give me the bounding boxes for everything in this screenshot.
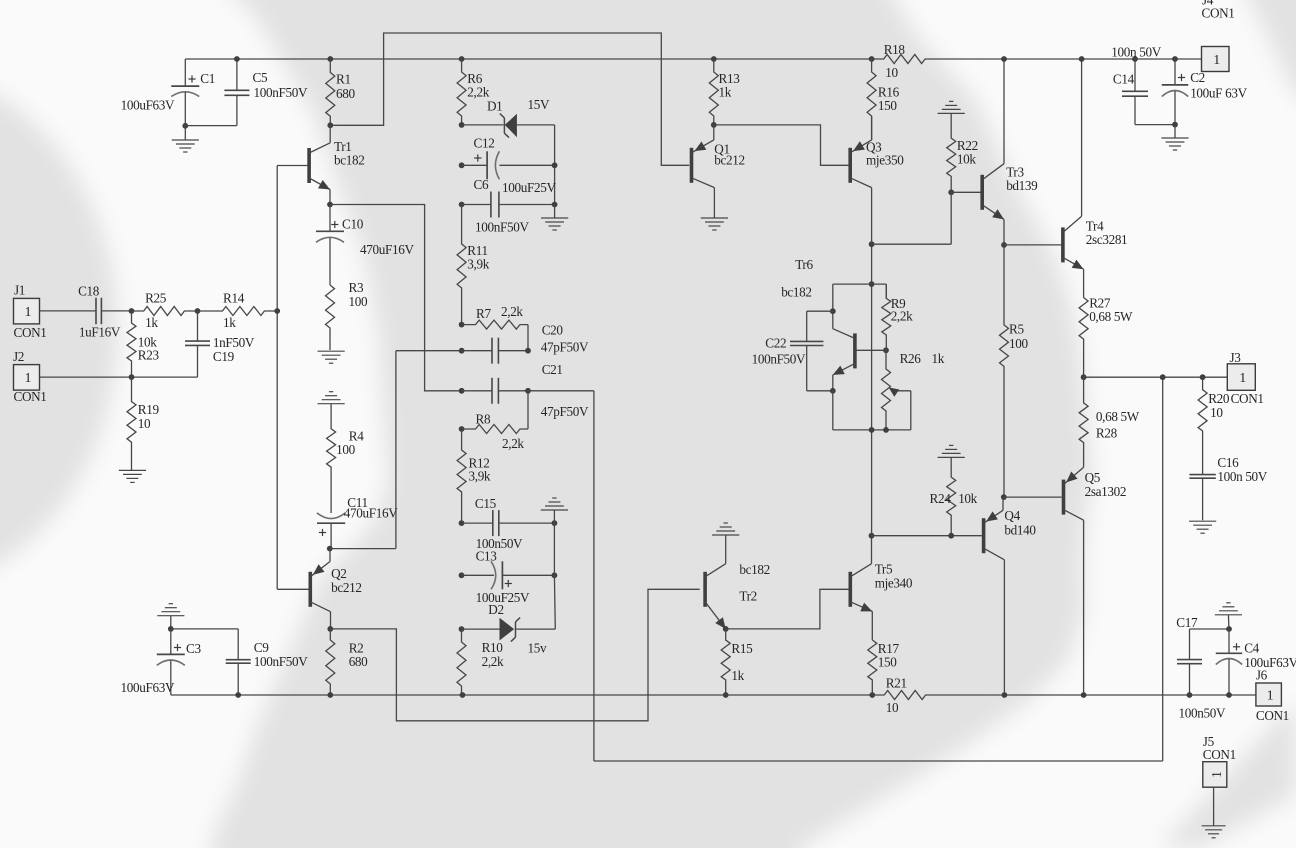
wire C11 node to C20 column: [330, 548, 396, 550]
node R25/R14: [195, 308, 201, 314]
capacitor C19: [185, 340, 210, 342]
capacitor C4 electrolytic: [1227, 615, 1230, 629]
transistor Tr4 2sc3281: [1061, 227, 1065, 262]
svg-text:CON1: CON1: [1256, 708, 1289, 723]
resistor R21: [872, 691, 1004, 700]
svg-text:R21: R21: [886, 676, 907, 691]
node Tr3 base: [948, 189, 954, 195]
transistor Tr3 bd139: [980, 175, 984, 210]
wire Q2 collector to Tr2 base: [330, 589, 699, 721]
node Tr4 collector rail: [1079, 56, 1085, 62]
capacitor C16: [1189, 474, 1215, 476]
svg-text:J1: J1: [14, 283, 25, 298]
svg-text:150: 150: [878, 654, 897, 669]
wire right column C15-C13-D2: [553, 523, 555, 575]
node R15 bottom: [723, 692, 729, 698]
svg-text:680: 680: [349, 654, 368, 669]
svg-text:C18: C18: [78, 284, 100, 299]
wire C21 right to feedback column: [528, 390, 594, 392]
wire Tr6 column down: [871, 244, 873, 536]
svg-text:C9: C9: [254, 640, 269, 655]
svg-text:1: 1: [1239, 371, 1246, 386]
transistor Tr5 mje340: [849, 572, 853, 607]
svg-text:100uF25V: 100uF25V: [502, 180, 556, 195]
svg-text:R14: R14: [223, 291, 245, 306]
resistor R20: [1200, 374, 1206, 380]
svg-text:100n 50V: 100n 50V: [1217, 469, 1267, 484]
wire bias node to Q4 base: [872, 535, 982, 537]
svg-text:C6: C6: [474, 177, 489, 192]
svg-text:0,68 5W: 0,68 5W: [1089, 309, 1133, 324]
capacitor C18: [40, 310, 97, 312]
svg-text:2,2k: 2,2k: [482, 654, 504, 669]
svg-text:2,2k: 2,2k: [502, 436, 524, 451]
inverted ground above Tr2: [712, 534, 739, 536]
wire Q2 base: [277, 588, 309, 590]
svg-text:10: 10: [886, 700, 899, 715]
resistor R1: [327, 56, 333, 62]
svg-text:C12: C12: [474, 136, 495, 151]
svg-text:1: 1: [25, 371, 32, 386]
svg-text:470uF16V: 470uF16V: [360, 242, 414, 257]
transistor Q4 bd140: [982, 518, 986, 553]
svg-text:1nF50V: 1nF50V: [213, 335, 255, 350]
svg-text:C2: C2: [1190, 70, 1205, 85]
svg-text:R8: R8: [476, 412, 491, 427]
resistor R17: [871, 611, 873, 640]
svg-text:CON1: CON1: [1231, 391, 1264, 406]
svg-text:C13: C13: [476, 549, 498, 564]
node C9 bottom: [235, 692, 241, 698]
svg-text:1: 1: [1210, 771, 1225, 778]
capacitor C20: [459, 348, 465, 354]
svg-text:C21: C21: [542, 362, 563, 377]
wire feedback loop to Q1 base: [330, 33, 689, 165]
node Tr3 collector rail: [1001, 56, 1007, 62]
node Tr6 net bottom: [869, 427, 875, 433]
svg-text:470uF16V: 470uF16V: [344, 506, 398, 521]
node C2 bottom / ground: [1172, 122, 1178, 128]
svg-text:100n50V: 100n50V: [1179, 705, 1226, 720]
svg-text:R7: R7: [476, 306, 491, 321]
svg-text:R19: R19: [138, 402, 160, 417]
ground under Q1: [713, 188, 715, 218]
resistor R24: [947, 457, 956, 535]
zener diode D1: [462, 124, 504, 126]
resistor R11: [457, 205, 466, 325]
inverted ground above C3: [157, 615, 184, 617]
svg-text:R23: R23: [138, 348, 160, 363]
node R1 bottom: [327, 122, 333, 128]
transistor Q5 2sa1302: [1062, 480, 1066, 515]
svg-text:J2: J2: [13, 349, 24, 364]
node R24 bottom: [948, 533, 954, 539]
resistor R7: [459, 322, 465, 328]
node Tr6 base: [883, 347, 889, 353]
capacitor C22: [807, 310, 833, 312]
svg-text:100uF 63V: 100uF 63V: [1190, 85, 1247, 100]
transistor Tr1 bc182: [307, 148, 311, 183]
node R6 bottom: [459, 122, 465, 128]
inverted ground above C4: [1215, 614, 1242, 616]
node C11/Q2 emitter: [327, 546, 333, 552]
resistor R19: [127, 377, 136, 470]
svg-text:2,2k: 2,2k: [467, 85, 489, 100]
svg-text:R26: R26: [900, 351, 922, 366]
capacitor C13 electrolytic: [459, 572, 465, 578]
svg-text:CON1: CON1: [1202, 5, 1235, 20]
node Tr4 base: [1001, 242, 1007, 248]
svg-text:bd140: bd140: [1004, 523, 1036, 538]
svg-text:bc212: bc212: [714, 152, 744, 167]
svg-text:Tr2: Tr2: [739, 589, 757, 604]
node J2/R19: [129, 374, 135, 380]
svg-text:R10: R10: [482, 640, 504, 655]
node R14 right on base column: [274, 308, 280, 314]
svg-text:bc182: bc182: [739, 562, 769, 577]
resistor R13: [711, 56, 717, 62]
svg-text:bc212: bc212: [331, 580, 361, 595]
svg-text:680: 680: [336, 86, 355, 101]
node C22 top: [830, 308, 836, 314]
svg-text:100nF50V: 100nF50V: [752, 352, 806, 367]
svg-text:10: 10: [138, 416, 151, 431]
svg-text:100nF50V: 100nF50V: [475, 220, 529, 235]
node R10 bottom: [460, 692, 466, 698]
svg-text:C14: C14: [1113, 71, 1135, 86]
wire J2 to node: [40, 376, 132, 378]
capacitor C1: [184, 59, 186, 86]
resistor R27: [1083, 269, 1085, 297]
ground under J5: [1213, 787, 1215, 826]
svg-text:2,2k: 2,2k: [501, 304, 523, 319]
svg-text:100: 100: [1009, 336, 1028, 351]
capacitor C11 electrolytic: [317, 513, 345, 519]
inverted ground above R22: [938, 112, 965, 114]
svg-text:100nF50V: 100nF50V: [254, 85, 308, 100]
svg-text:1: 1: [25, 305, 32, 320]
wire output node to J3: [1084, 376, 1228, 378]
node Tr1 emitter: [327, 202, 333, 208]
resistor R4: [327, 404, 336, 513]
svg-text:CON1: CON1: [14, 389, 47, 404]
svg-text:2,2k: 2,2k: [891, 309, 913, 324]
wire output feedback down: [1162, 377, 1164, 761]
svg-text:47pF50V: 47pF50V: [541, 340, 589, 355]
svg-text:2sa1302: 2sa1302: [1085, 484, 1127, 499]
node C4 bottom: [1226, 692, 1232, 698]
capacitor C12 electrolytic: [459, 162, 465, 168]
node Tr6 collector top: [869, 281, 875, 287]
svg-text:Tr5: Tr5: [875, 562, 893, 577]
svg-text:1k: 1k: [719, 85, 732, 100]
node R26 bottom: [883, 427, 889, 433]
svg-text:R15: R15: [731, 641, 753, 656]
node R17 bottom: [869, 692, 875, 698]
capacitor C14: [1132, 56, 1138, 62]
resistor R3: [326, 285, 335, 350]
svg-text:bc182: bc182: [781, 285, 811, 300]
zener diode D2: [459, 626, 465, 632]
svg-text:C22: C22: [765, 336, 786, 351]
resistor R23: [127, 311, 136, 377]
svg-text:J3: J3: [1230, 350, 1242, 365]
svg-text:CON1: CON1: [14, 325, 47, 340]
capacitor C3 electrolytic: [170, 616, 172, 629]
node R2 bottom: [327, 692, 333, 698]
node Q4 collector bottom: [1002, 692, 1008, 698]
svg-text:1k: 1k: [145, 315, 158, 330]
svg-text:R25: R25: [145, 291, 167, 306]
svg-text:10: 10: [1210, 405, 1223, 420]
svg-text:C17: C17: [1176, 615, 1198, 630]
node C17 bottom: [1187, 692, 1193, 698]
svg-text:bd139: bd139: [1006, 178, 1038, 193]
wire bottom rail: [171, 694, 873, 696]
svg-text:R28: R28: [1096, 426, 1118, 441]
svg-text:R24: R24: [930, 491, 952, 506]
svg-text:C20: C20: [542, 323, 564, 338]
svg-text:C1: C1: [200, 71, 215, 86]
resistor R2: [326, 629, 335, 695]
resistor R10: [457, 629, 466, 695]
svg-text:J6: J6: [1256, 668, 1268, 683]
resistor R6: [459, 56, 465, 62]
node Q2 collector: [327, 626, 333, 632]
transistor Q3 mje350: [848, 148, 852, 183]
wire feedback bottom: [594, 760, 1163, 762]
svg-text:0,68 5W: 0,68 5W: [1096, 409, 1140, 424]
wire R13 to Q3 base: [714, 125, 849, 165]
capacitor C6: [459, 202, 465, 208]
svg-text:C19: C19: [213, 349, 235, 364]
inverted ground above R4: [318, 403, 345, 405]
node R13 bottom / Q1 emitter: [711, 122, 717, 128]
ground under C1: [182, 123, 188, 129]
svg-text:47pF50V: 47pF50V: [541, 404, 589, 419]
wire D1 right column: [554, 125, 556, 205]
capacitor C15: [459, 520, 465, 526]
svg-text:100uF63V: 100uF63V: [1244, 655, 1296, 670]
capacitor C10: [329, 205, 331, 232]
svg-text:C5: C5: [253, 70, 268, 85]
svg-text:bc182: bc182: [334, 153, 364, 168]
svg-text:150: 150: [878, 98, 897, 113]
svg-text:D2: D2: [488, 602, 503, 617]
svg-text:CON1: CON1: [1203, 747, 1236, 762]
wire Tr1 emitter to C21 node: [330, 205, 462, 391]
wire top V+ rail: [185, 58, 871, 60]
svg-text:1uF16V: 1uF16V: [79, 324, 121, 339]
node Q3 collector / Tr3 base net: [869, 241, 875, 247]
svg-text:100n 50V: 100n 50V: [1111, 45, 1161, 60]
svg-text:15v: 15v: [528, 641, 547, 656]
svg-text:R5: R5: [1009, 322, 1024, 337]
svg-text:R20: R20: [1208, 391, 1230, 406]
svg-text:100: 100: [336, 442, 355, 457]
resistor R8: [459, 426, 465, 432]
node Q5 base / R5 bottom: [1001, 494, 1007, 500]
transistor Q2 bc212: [309, 572, 313, 607]
node Tr2 emitter: [723, 626, 729, 632]
node output: [1081, 374, 1087, 380]
svg-text:100uF63V: 100uF63V: [121, 98, 175, 113]
capacitor C17: [1190, 628, 1230, 630]
transistor Q1 bc212: [690, 148, 694, 183]
svg-text:100: 100: [349, 294, 368, 309]
svg-text:100nF50V: 100nF50V: [254, 654, 308, 669]
wire C20 node from x396 column: [396, 350, 462, 352]
resistor R16: [869, 56, 875, 62]
svg-text:3,9k: 3,9k: [467, 257, 489, 272]
svg-text:15V: 15V: [528, 97, 550, 112]
wire Tr1 base column: [277, 165, 308, 167]
resistor R12: [457, 429, 466, 523]
svg-text:mje350: mje350: [866, 153, 904, 168]
ground under R19: [119, 469, 146, 471]
svg-text:1k: 1k: [731, 668, 744, 683]
svg-text:Tr6: Tr6: [795, 257, 813, 272]
node feedback tap: [1160, 374, 1166, 380]
svg-text:Q2: Q2: [331, 566, 346, 581]
node C6 right / ground: [552, 202, 558, 208]
svg-text:10k: 10k: [958, 491, 977, 506]
svg-text:mje340: mje340: [875, 576, 913, 591]
svg-text:D1: D1: [487, 99, 502, 114]
resistor R28: [1079, 377, 1088, 467]
svg-text:1k: 1k: [932, 351, 945, 366]
svg-text:1k: 1k: [223, 315, 236, 330]
svg-text:100uF63V: 100uF63V: [121, 680, 175, 695]
svg-text:C3: C3: [186, 641, 201, 656]
svg-text:3,9k: 3,9k: [469, 469, 491, 484]
capacitor C2 electrolytic: [1172, 56, 1178, 62]
svg-text:R3: R3: [349, 280, 364, 295]
resistor R18: [872, 55, 1004, 64]
svg-text:1: 1: [1267, 688, 1274, 703]
transistor Tr6 bc182 mirrored: [853, 333, 857, 368]
potentiometer R26: [882, 350, 891, 430]
svg-text:Q5: Q5: [1085, 470, 1101, 485]
svg-text:C15: C15: [475, 496, 497, 511]
resistor R25: [132, 307, 198, 316]
ground under C16: [1189, 520, 1216, 522]
svg-text:10: 10: [885, 65, 898, 80]
resistor R14: [198, 307, 278, 316]
svg-text:10k: 10k: [957, 152, 976, 167]
wire Tr2 emitter to Tr5 base: [726, 589, 849, 629]
capacitor C9: [171, 628, 238, 630]
ground under R3: [318, 350, 345, 352]
inverted ground above R24: [938, 456, 965, 458]
resistor R9: [885, 284, 887, 298]
transistor Tr2 bc182: [703, 572, 707, 607]
node Q5 collector bottom: [1081, 692, 1087, 698]
svg-text:2sc3281: 2sc3281: [1086, 232, 1128, 247]
svg-text:R18: R18: [884, 42, 906, 57]
svg-text:C10: C10: [342, 217, 364, 232]
ground above C15 right: [552, 520, 558, 526]
node Tr6 emitter bottom: [830, 388, 836, 394]
svg-text:R1: R1: [336, 72, 351, 87]
capacitor C5: [234, 56, 240, 62]
node Tr5 collector rail: [869, 533, 875, 539]
resistor R22: [947, 113, 956, 192]
resistor R15: [721, 629, 730, 695]
node input: [129, 308, 135, 314]
svg-text:Q4: Q4: [1004, 508, 1020, 523]
capacitor C21: [459, 388, 465, 394]
resistor R5: [1000, 245, 1009, 497]
svg-text:1: 1: [1213, 53, 1220, 68]
svg-text:C4: C4: [1244, 641, 1259, 656]
svg-text:C16: C16: [1217, 455, 1239, 470]
